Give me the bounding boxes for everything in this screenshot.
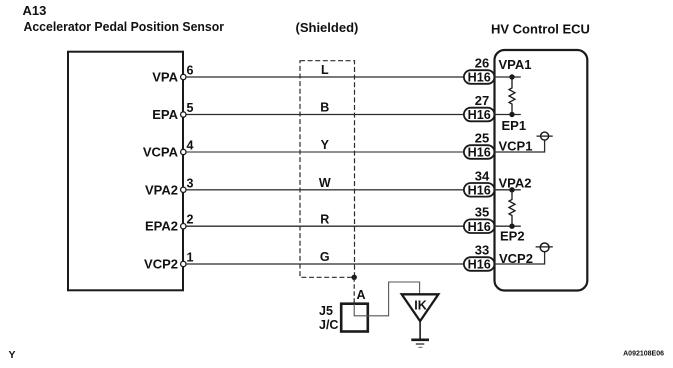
svg-text:VCPA: VCPA <box>143 145 179 160</box>
shield terminal symbol VCP2 <box>536 243 553 252</box>
svg-text:VPA: VPA <box>152 70 178 85</box>
svg-text:Y: Y <box>9 349 16 361</box>
wire stub VPA1 <box>495 76 521 78</box>
svg-text:IK: IK <box>414 299 427 313</box>
pin 6 (VPA) <box>181 64 194 80</box>
svg-text:H16: H16 <box>468 258 491 272</box>
node EP2 <box>509 224 514 229</box>
sensor A13 box <box>68 52 183 291</box>
svg-text:B: B <box>320 101 329 115</box>
svg-text:5: 5 <box>187 101 194 115</box>
wire VCPA (Y) <box>186 151 465 153</box>
svg-text:R: R <box>320 212 329 226</box>
connector H16 pin 35 <box>464 205 495 234</box>
connector H16 pin 27 <box>464 93 495 122</box>
wire stub EP1 <box>495 114 521 116</box>
ECU box <box>495 50 588 291</box>
svg-text:6: 6 <box>187 64 194 78</box>
dashed shield drain wire to A <box>353 277 355 303</box>
svg-text:HV Control ECU: HV Control ECU <box>491 22 590 37</box>
connector H16 pin 33 <box>464 243 495 272</box>
wire VCP2 (G) <box>186 263 465 265</box>
wire VCP2 branch <box>495 252 545 264</box>
wire VPA2 (W) <box>186 189 465 191</box>
wire VPA (L) <box>186 76 465 78</box>
svg-text:EP2: EP2 <box>500 228 525 243</box>
svg-text:H16: H16 <box>468 220 491 234</box>
svg-text:H16: H16 <box>468 183 491 197</box>
connector H16 pin 25 <box>464 131 495 160</box>
svg-text:J5: J5 <box>319 304 333 318</box>
junction connector J5 J/C box <box>341 304 368 332</box>
svg-text:G: G <box>320 250 330 264</box>
svg-text:A13: A13 <box>23 3 47 18</box>
svg-text:34: 34 <box>475 168 490 183</box>
svg-text:EPA: EPA <box>152 107 178 122</box>
wire VCP1 branch <box>495 140 545 152</box>
shield terminal symbol VCP1 <box>537 132 553 140</box>
svg-text:J/C: J/C <box>319 318 338 332</box>
wire IK to ground <box>419 321 421 339</box>
svg-text:27: 27 <box>475 93 489 108</box>
svg-text:Y: Y <box>321 138 330 152</box>
pin 2 (EPA2) <box>181 213 194 229</box>
svg-text:VCP2: VCP2 <box>144 257 178 272</box>
shield dashed box <box>300 61 355 278</box>
wire stub VPA2 <box>495 189 521 191</box>
svg-text:A092108E06: A092108E06 <box>623 351 664 358</box>
node VPA1 <box>509 74 514 79</box>
svg-text:35: 35 <box>475 205 489 220</box>
svg-text:EP1: EP1 <box>502 118 527 133</box>
svg-text:2: 2 <box>187 213 194 227</box>
pin 1 (VCP2) <box>181 251 194 267</box>
svg-text:A: A <box>357 288 366 302</box>
svg-text:33: 33 <box>475 243 489 258</box>
wire J/C to IK <box>354 282 419 316</box>
pin 3 (VPA2) <box>181 176 194 192</box>
svg-text:H16: H16 <box>468 146 491 160</box>
svg-text:H16: H16 <box>468 108 491 122</box>
svg-text:VCP1: VCP1 <box>499 139 533 154</box>
svg-text:EPA2: EPA2 <box>145 219 178 234</box>
junction node A dot <box>352 275 357 280</box>
connector H16 pin 26 <box>464 56 495 85</box>
resistor R2 (VPA2-EP2) <box>509 190 515 226</box>
svg-text:25: 25 <box>475 131 489 146</box>
connector H16 pin 34 <box>464 168 495 197</box>
node EP1 <box>509 112 514 117</box>
svg-text:W: W <box>319 176 331 190</box>
wire EPA2 (R) <box>186 225 465 227</box>
resistor R1 (VPA1-EP1) <box>509 77 515 115</box>
svg-text:3: 3 <box>187 176 194 190</box>
svg-text:Accelerator Pedal Position Sen: Accelerator Pedal Position Sensor <box>24 19 225 34</box>
svg-text:VPA2: VPA2 <box>499 176 532 191</box>
wire stub EP2 <box>495 225 521 227</box>
svg-text:VPA1: VPA1 <box>499 57 532 72</box>
pin 4 (VCPA) <box>181 139 194 155</box>
svg-text:4: 4 <box>187 139 194 153</box>
wire EPA (B) <box>186 114 465 116</box>
pin 5 (EPA) <box>181 101 194 117</box>
svg-text:VPA2: VPA2 <box>145 182 178 197</box>
svg-text:L: L <box>321 63 329 77</box>
node VPA2 <box>509 187 514 192</box>
svg-text:(Shielded): (Shielded) <box>296 20 359 35</box>
svg-text:H16: H16 <box>468 71 491 85</box>
ground <box>411 340 429 348</box>
svg-text:1: 1 <box>187 251 194 265</box>
svg-text:26: 26 <box>475 56 489 71</box>
noise filter IK (triangle) <box>402 294 439 321</box>
